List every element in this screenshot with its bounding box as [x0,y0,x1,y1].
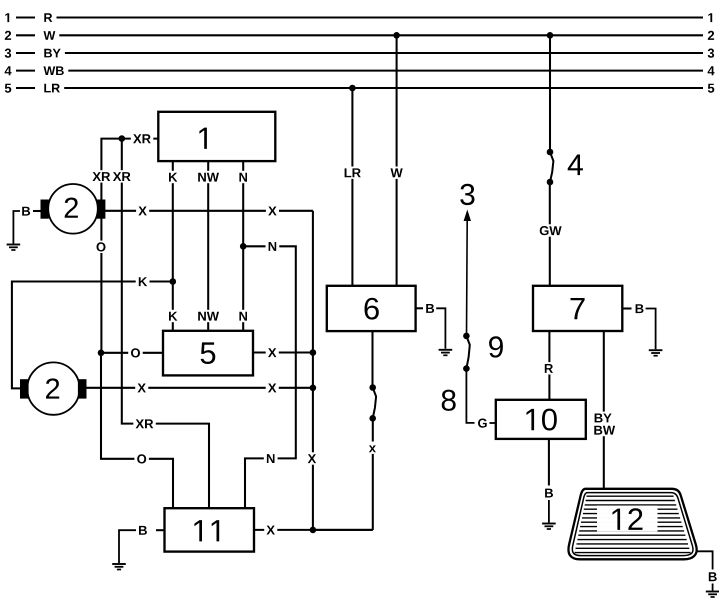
component 5 [163,331,253,376]
junction on bus 5 at LR drop [349,85,356,92]
ground of motor 2 (upper) [7,245,21,251]
junction on K [170,278,177,285]
pedal 12 [568,489,696,560]
wire BY/BW (component 7 to pedal 12) [591,331,617,489]
junction on N [240,243,247,250]
bus wire 1 (R) [5,13,712,22]
component 6 [327,286,416,331]
arrow to 3 [464,210,471,336]
junction O at component 5 row [98,350,105,357]
wire K (motor 2 lower to K node) [12,275,173,388]
component 7 [533,286,622,331]
wire X (motor 2 lower to node X) [86,382,313,394]
junction X at O-row [310,349,317,356]
component 1 [158,112,275,161]
wire B below component 10 [542,439,556,523]
wire R (component 7 to component 10) [542,331,556,400]
motor 2 (lower) [21,362,87,414]
wire B of component 7 [622,302,655,349]
junction on bus 2 at switch-4 drop [547,32,554,39]
ground of component 7 [649,350,663,356]
wire component 6 to switch [371,331,373,388]
switch 4 [547,149,554,186]
bus wire 3 (BY) [5,49,714,58]
label 4 [568,155,583,176]
wire O (to component 11) [101,353,173,508]
wire W (bus 2 to component 6) [388,35,405,286]
wire B of component 11 [119,524,165,563]
bus wire 4 (WB) [5,66,715,75]
component 11 [165,508,255,551]
wire G (switch 9 to component 10) [466,369,495,430]
label 8 [442,390,456,411]
wire X vertical (node X) [305,211,318,530]
junction on XR wire [119,135,126,142]
wire LR (bus 5 to component 6) [342,88,364,286]
junction X at X-row [310,385,317,392]
ground at bottom right [706,592,719,598]
bus wire 2 (W) [5,31,714,40]
wire B of component 6 [416,302,446,349]
label 9 [489,336,503,357]
wire X out of component 11 [254,524,373,536]
wire X (component 5 to node X) [253,346,313,358]
motor 2 (upper) [41,184,105,234]
label 3 [460,184,474,205]
wire K (component 1 to component 5) [166,161,180,331]
ground below component 10 [542,524,556,530]
wire x (switch to node X) [313,418,378,530]
bus wire 5 (LR) [5,84,715,93]
ground of component 6 [439,350,453,356]
component 10 [496,400,586,439]
wire bus 2 to switch 4 [549,35,551,152]
wire GW (switch 4 to component 7) [537,182,564,286]
wire B of motor 2 (upper) [13,205,41,244]
wire N (component 1 to component 5) [236,161,250,331]
wire O vertical (motor 2 upper) [94,218,109,353]
wire pedal 12 to B [697,551,719,590]
wire XR into component 1 [90,132,158,200]
junction on bus 2 at W drop [393,32,400,39]
wire NW (component 1 to component 5) [195,161,221,331]
wire X (motor 2 upper to node X) [105,205,313,217]
switch 9 [463,333,470,372]
junction X at component 11 row [310,527,317,534]
wire O (junction to component 5) [101,347,163,359]
ground of component 11 [112,564,126,570]
wire N branch (to component 11) [243,240,296,508]
switch below component 6 [369,384,376,421]
wire XR (to component 11 via left) [111,139,209,509]
